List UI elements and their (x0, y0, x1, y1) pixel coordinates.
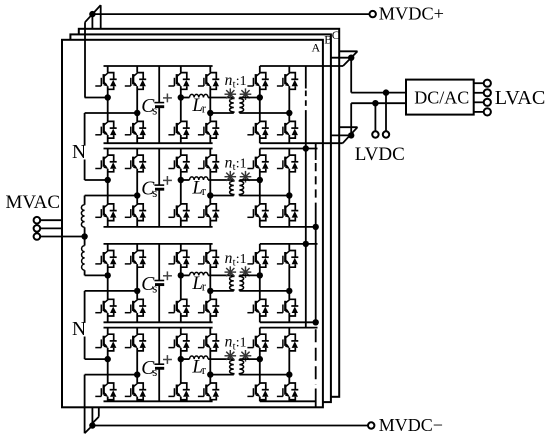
svg-text:s: s (152, 185, 157, 200)
transistor: row4 leg3 lower IGBT (168, 383, 189, 400)
transistor: row4 leg5 lower IGBT (247, 383, 268, 400)
node: row2 leg1 midpoint (105, 177, 111, 183)
node: row3 leg5 midpoint (257, 272, 263, 278)
wire: LVDC+ feed to DC/AC (351, 92, 406, 94)
transistor: row2 leg6 lower IGBT (277, 204, 298, 221)
transistor: row1 leg4 upper IGBT (198, 73, 219, 90)
wire: row3 output bridge DC- rail (260, 321, 316, 323)
wire: row4 bridge1 AC terminal b (85, 374, 138, 376)
node: row1 leg6 midpoint (286, 110, 292, 116)
wire: row2 leg5 (259, 149, 261, 156)
wire: row3 cell DC- rail (104, 321, 213, 323)
transistor: row3 leg4 lower IGBT (198, 299, 219, 316)
label + (Cs polarity) row4 (163, 359, 172, 361)
svg-text:n: n (225, 250, 233, 267)
wire: LVDC- bus dashed segment 2 (315, 329, 317, 385)
wire: row3 leg5 (259, 244, 261, 251)
svg-text::1: :1 (236, 251, 247, 266)
node: LVDC- merge (348, 132, 354, 138)
node: MVAC phase A input (81, 233, 87, 239)
wire: phase C MVDC+ feeder (100, 5, 102, 29)
wire: LVAC output 1 (474, 82, 485, 84)
wire: row1 bridge1 AC terminal a (85, 97, 108, 99)
transistor: row1 leg4 lower IGBT (198, 121, 219, 138)
wire: row3 leg3 (180, 244, 182, 251)
transistor: row1 leg6 upper IGBT (277, 73, 298, 90)
svg-text:LVAC: LVAC (495, 87, 546, 109)
svg-text:LVDC: LVDC (355, 144, 405, 165)
node: row1 leg4 midpoint (207, 110, 213, 116)
node: MVDC- junction (89, 422, 95, 428)
capacitor Cs row4 (158, 328, 160, 365)
transistor: row4 leg2 upper IGBT (125, 334, 146, 351)
wire: MVAC lead 1 (40, 219, 62, 221)
wire: LVDC- bus dashed segment 1 (315, 163, 317, 203)
wire: LVDC- merge diagonal (343, 127, 358, 143)
wire: row4 output bridge DC- rail (260, 400, 316, 402)
wire: LVDC- bus bottom segment (315, 389, 317, 408)
wire: row4 leg1 (107, 328, 109, 335)
wire: LVAC output 4 (474, 111, 485, 113)
MVDC- terminal (368, 422, 374, 428)
inductor Ls lower (MVAC coupling) (82, 246, 85, 271)
transistor: row1 leg5 lower IGBT (247, 121, 268, 138)
wire: row4 leg5 (259, 328, 261, 335)
wire: row4 leg4 (209, 328, 211, 335)
node: row4 leg3 midpoint (178, 356, 184, 362)
capacitor Cs row3 (158, 244, 160, 281)
wire: LVDC+ bus main segment (305, 111, 307, 328)
transistor: row3 leg5 upper IGBT (247, 251, 268, 268)
LVAC terminal 4 (484, 108, 491, 115)
node: row3 leg3 midpoint (178, 272, 184, 278)
MVAC terminal 1 (34, 217, 41, 224)
wire: row1 leg5 (259, 66, 261, 73)
transistor: row1 leg5 upper IGBT (247, 73, 268, 90)
wire: row4 cell DC+ rail (104, 327, 213, 329)
node: MVDC+ junction (89, 11, 95, 17)
LVAC terminal 1 (484, 80, 491, 87)
wire: phase B MVDC+ feeder (91, 14, 93, 29)
wire: MVDC+ riser from row1 (84, 22, 86, 97)
transformer T4 polarity mark secondary (240, 350, 252, 362)
transformer T4 polarity mark primary (225, 350, 237, 362)
wire: transformer secondary top to row2 leg5 midpoint (239, 179, 259, 181)
node: bus1 row2 junction (303, 145, 309, 151)
node: row2 leg4 midpoint (207, 192, 213, 198)
wire: row1 cell DC- rail (104, 142, 213, 144)
svg-text:A: A (312, 41, 321, 55)
svg-text::1: :1 (236, 155, 247, 170)
node: row4 leg2 midpoint (134, 371, 140, 377)
node: row2 leg3 midpoint (178, 177, 184, 183)
node: row3 leg6 midpoint (286, 288, 292, 294)
wire: LVAC output 3 (474, 101, 485, 103)
transistor: row1 leg6 lower IGBT (277, 121, 298, 138)
wire: row3 output bridge DC+ rail (260, 243, 318, 245)
transformer T1 polarity mark secondary (240, 88, 252, 100)
wire: transformer secondary bottom to row3 leg6 midpoint (239, 290, 289, 292)
wire: row2 leg4 (209, 149, 211, 156)
wire: row3 leg2 (136, 244, 138, 251)
wire: row4 leg4 midpoint to transformer primary bottom (210, 374, 234, 376)
wire: row3 bridge1 AC terminal a (85, 274, 108, 276)
transformer T3 secondary winding (239, 275, 243, 291)
wire: row4 output bridge DC+ rail (260, 327, 318, 329)
transistor: row4 leg4 lower IGBT (198, 383, 219, 400)
transistor: row2 leg2 upper IGBT (125, 155, 146, 172)
wire: transformer secondary top to row3 leg5 midpoint (239, 274, 259, 276)
label + (Cs polarity) row1 (163, 97, 172, 99)
inductor Lr row2 (190, 177, 209, 180)
wire: MVDC+ merge diagonal (85, 5, 101, 22)
wire: row2 bridge2 midpoint to Lr (181, 179, 190, 181)
node: row2 leg6 midpoint (286, 192, 292, 198)
LVAC terminal 2 (484, 89, 491, 96)
transformer T1 polarity mark primary (225, 88, 237, 100)
transistor: row1 leg1 upper IGBT (95, 73, 116, 90)
node: bus1 row3 junction (303, 241, 309, 247)
wire: row4 leg2 (136, 328, 138, 335)
inductor Lr row4 (190, 356, 209, 359)
wire: row4 cell DC- rail (104, 400, 213, 402)
MVAC terminal 2 (34, 225, 41, 232)
svg-text:MVDC−: MVDC− (379, 415, 443, 435)
wire: row4 leg3 (180, 328, 182, 335)
wire: transformer secondary bottom to row1 leg6 midpoint (239, 112, 289, 114)
wire: row2 bridge1 AC terminal a (85, 179, 108, 181)
node: bus2 row2 junction (313, 224, 319, 230)
label + (Cs polarity) row3 (163, 275, 172, 277)
node: row2 leg5 midpoint (257, 177, 263, 183)
wire: row3 T2 to N link lower (84, 291, 86, 323)
transistor: row2 leg5 lower IGBT (247, 204, 268, 221)
node: row3 leg4 midpoint (207, 288, 213, 294)
transistor: row1 leg1 lower IGBT (95, 121, 116, 138)
wire: MVDC- merge diagonal (85, 426, 93, 434)
wire: row3 leg4 (209, 244, 211, 251)
wire: Lr to transformer primary row4 (208, 358, 234, 360)
MVDC+ terminal (370, 11, 376, 17)
wire: LVAC output 2 (474, 92, 485, 94)
wire: transformer secondary bottom to row2 leg6 midpoint (239, 195, 289, 197)
node: row1 leg2 midpoint (134, 110, 140, 116)
wire: phase B MVDC- feeder (91, 407, 93, 425)
transistor: row3 leg3 upper IGBT (168, 251, 189, 268)
transistor: row3 leg2 upper IGBT (125, 251, 146, 268)
wire: row1 leg6 (288, 66, 290, 73)
svg-text:s: s (152, 364, 157, 379)
transistor: row3 leg1 upper IGBT (95, 251, 116, 268)
wire: row4 bridge1 AC terminal a (85, 358, 108, 360)
transformer T3 polarity mark secondary (240, 266, 252, 278)
inductor Lr row3 (190, 272, 209, 275)
transistor: row4 leg5 upper IGBT (247, 334, 268, 351)
wire: LVDC- bus mid segment (315, 203, 317, 322)
transistor: row2 leg1 upper IGBT (95, 155, 116, 172)
transistor: row2 leg4 lower IGBT (198, 204, 219, 221)
transistor: row3 leg6 upper IGBT (277, 251, 298, 268)
wire: row1 bridge2 midpoint to Lr (181, 97, 190, 99)
wire: MVDC- drop from row4 (84, 375, 86, 434)
svg-text:n: n (225, 72, 233, 89)
wire: N to row2 T1 link (84, 160, 86, 181)
wire: Lr to transformer primary row3 (208, 274, 234, 276)
node: LVDC+ tap (383, 89, 389, 95)
svg-text:s: s (152, 281, 157, 296)
transistor: row3 leg5 lower IGBT (247, 299, 268, 316)
wire: MVAC lead 2 (40, 227, 62, 229)
transistor: row4 leg6 lower IGBT (277, 383, 298, 400)
wire: inductor to phase node (84, 227, 86, 236)
wire: LVDC+ merge diagonal (343, 51, 358, 66)
capacitor Cs row2 (158, 149, 160, 186)
wire: row2 cell DC+ rail (104, 148, 213, 150)
transistor: row2 leg2 lower IGBT (125, 204, 146, 221)
svg-text:n: n (225, 334, 233, 351)
svg-text:MVAC: MVAC (6, 192, 61, 213)
wire: row2 leg1 (107, 149, 109, 156)
inductor Lr row1 (190, 94, 209, 97)
wire: row2 leg4 midpoint to transformer primary bottom (210, 195, 234, 197)
node: row3 leg1 midpoint (105, 272, 111, 278)
wire: Lr to transformer primary row2 (208, 179, 234, 181)
phase sheet A outline (62, 40, 323, 408)
wire: LVDC terminal stub - (374, 103, 376, 131)
wire: row2 leg6 (288, 149, 290, 156)
transformer T3 polarity mark primary (225, 266, 237, 278)
transistor: row1 leg2 lower IGBT (125, 121, 146, 138)
LVDC terminal 2 (383, 131, 389, 137)
transistor: row4 leg2 lower IGBT (125, 383, 146, 400)
transistor: row2 leg6 upper IGBT (277, 155, 298, 172)
wire: row3 leg1 (107, 244, 109, 251)
transistor: row3 leg4 upper IGBT (198, 251, 219, 268)
wire: row1 leg4 midpoint to transformer primary bottom (210, 112, 234, 114)
transistor: row2 leg3 upper IGBT (168, 155, 189, 172)
wire: row3 bridge1 AC terminal b (85, 290, 138, 292)
transistor: row3 leg6 lower IGBT (277, 299, 298, 316)
wire: row1 bridge1 AC terminal b (85, 112, 138, 114)
transistor: row4 leg1 lower IGBT (95, 383, 116, 400)
transistor: row2 leg3 lower IGBT (168, 204, 189, 221)
svg-text:MVDC+: MVDC+ (379, 4, 444, 24)
wire: LVDC+ bus dashed segment (305, 91, 307, 112)
wire: MVAC lead 3 (40, 236, 84, 238)
transformer T3 primary winding (230, 275, 234, 291)
svg-text:C: C (332, 28, 340, 42)
node: row2 leg2 midpoint (134, 192, 140, 198)
svg-text::1: :1 (236, 335, 247, 350)
transistor: row4 leg1 upper IGBT (95, 334, 116, 351)
transistor: row3 leg3 lower IGBT (168, 299, 189, 316)
transistor: row2 leg1 lower IGBT (95, 204, 116, 221)
node: row4 leg1 midpoint (105, 356, 111, 362)
wire: row1 leg2 (136, 66, 138, 73)
wire: row1 leg4 (209, 66, 211, 73)
wire: phase C LVDC- feeder (339, 126, 357, 128)
wire: phase node to lower inductor (84, 237, 86, 246)
wire: row2 output bridge DC- rail (260, 226, 316, 228)
transistor: row1 leg3 lower IGBT (168, 121, 189, 138)
wire: Lr to transformer primary row1 (208, 97, 234, 99)
svg-text:n: n (225, 154, 233, 171)
wire: row4 leg6 (288, 328, 290, 335)
node: LVDC+ merge (348, 55, 354, 61)
capacitor Cs row1 (158, 66, 160, 103)
wire: row1 leg1 (107, 66, 109, 73)
wire: row2 bridge1 AC terminal b (85, 195, 138, 197)
wire: row1 T2 to N link upper (84, 113, 86, 145)
node: row1 leg1 midpoint (105, 94, 111, 100)
wire: MVDC+ bus (92, 13, 369, 15)
node: bus2 row3 junction (313, 319, 319, 325)
transformer T1 secondary winding (239, 98, 243, 114)
wire: LVDC+ drop to converter (350, 58, 352, 93)
wire: phase B LVDC+ feeder (331, 57, 351, 59)
node: LVDC- tap (372, 100, 378, 106)
wire: row3 leg4 midpoint to transformer primary bottom (210, 290, 234, 292)
transformer T2 polarity mark secondary (240, 171, 252, 183)
svg-text:DC/AC: DC/AC (414, 87, 469, 107)
transistor: row3 leg1 lower IGBT (95, 299, 116, 316)
wire: phase C LVDC+ feeder (339, 50, 357, 52)
inductor Ls upper (MVAC coupling) (81, 205, 84, 227)
wire: transformer secondary bottom to row4 leg6 midpoint (239, 374, 289, 376)
wire: row2 leg2 (136, 149, 138, 156)
transistor: row4 leg6 upper IGBT (277, 334, 298, 351)
wire: LVDC- bus (bus2) top segment (315, 143, 317, 160)
transformer T4 primary winding (230, 359, 234, 375)
wire: transformer secondary top to row4 leg5 midpoint (239, 358, 259, 360)
svg-text:s: s (152, 103, 157, 118)
op-block U1 DC/AC converter (406, 80, 474, 115)
transformer T2 primary winding (230, 180, 234, 196)
LVAC terminal 3 (484, 99, 491, 106)
wire: row2 output bridge DC+ rail (260, 148, 318, 150)
wire: row3 cell DC+ rail (104, 243, 213, 245)
node: row4 leg5 midpoint (257, 356, 263, 362)
wire: row2 leg3 (180, 149, 182, 156)
wire: phase C MVDC- diagonal (92, 417, 98, 424)
transistor: row2 leg4 upper IGBT (198, 155, 219, 172)
wire: row3 bridge2 midpoint to Lr (181, 274, 190, 276)
wire: LVDC terminal stub + (385, 93, 387, 132)
svg-text::1: :1 (236, 73, 247, 88)
wire: row2 cell DC- rail (104, 226, 213, 228)
wire: lower inductor to row3 T1 (84, 270, 86, 275)
wire: row1 leg3 (180, 66, 182, 73)
transformer T4 secondary winding (239, 359, 243, 375)
wire: row3 leg6 (288, 244, 290, 251)
wire: LVDC- rise to converter (350, 103, 352, 135)
node: row1 leg3 midpoint (178, 94, 184, 100)
transistor: row4 leg4 upper IGBT (198, 334, 219, 351)
node: row3 leg2 midpoint (134, 288, 140, 294)
phase sheet C outline (79, 29, 339, 397)
wire: LVDC- feed to DC/AC (351, 102, 406, 104)
wire: row4 bridge2 midpoint to Lr (181, 358, 190, 360)
transistor: row4 leg3 upper IGBT (168, 334, 189, 351)
transformer T1 primary winding (230, 98, 234, 114)
transistor: row3 leg2 lower IGBT (125, 299, 146, 316)
node: row1 leg5 midpoint (257, 94, 263, 100)
wire: phase B LVDC- feeder (331, 134, 351, 136)
label + (Cs polarity) row2 (163, 179, 172, 181)
transformer T2 secondary winding (239, 180, 243, 196)
wire: phase C MVDC- feeder (98, 407, 100, 416)
wire: MVDC- bus (92, 425, 368, 427)
transformer T2 polarity mark primary (225, 171, 237, 183)
transistor: row1 leg3 upper IGBT (168, 73, 189, 90)
MVAC terminal 3 (34, 233, 41, 240)
transistor: row1 leg2 upper IGBT (125, 73, 146, 90)
wire: N to row4 T1 link (84, 337, 86, 360)
wire: LVDC+ bus (bus1) upper solid segment (305, 66, 307, 89)
wire: row1 output bridge DC+ rail (260, 65, 343, 67)
node: row4 leg6 midpoint (286, 371, 292, 377)
phase sheet B outline (70, 34, 331, 402)
transistor: row2 leg5 upper IGBT (247, 155, 268, 172)
LVDC terminal 1 (372, 131, 378, 137)
node: row4 leg4 midpoint (207, 371, 213, 377)
wire: transformer secondary top to row1 leg5 midpoint (239, 97, 259, 99)
wire: row1 cell DC+ rail (104, 65, 213, 67)
wire: row1 output bridge DC- rail (260, 142, 343, 144)
wire: row2 T2 down to input inductor (84, 196, 86, 205)
